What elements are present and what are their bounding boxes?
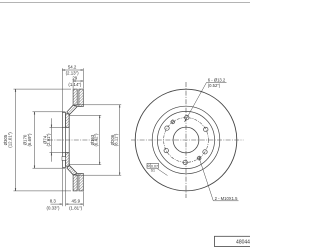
svg-text:48044: 48044	[236, 239, 250, 245]
svg-text:45.9: 45.9	[72, 199, 81, 204]
svg-text:(0.33″): (0.33″)	[46, 205, 60, 210]
svg-text:(8.11″): (8.11″)	[113, 133, 118, 146]
svg-text:(6.69″): (6.69″)	[27, 133, 32, 147]
svg-text:8.3: 8.3	[50, 199, 57, 204]
svg-text:2 - M10X1.5: 2 - M10X1.5	[215, 196, 238, 201]
svg-text:(2.91″): (2.91″)	[46, 133, 51, 147]
svg-text:(12.01″): (12.01″)	[8, 132, 13, 148]
svg-text:(6.42″): (6.42″)	[93, 133, 98, 147]
svg-text:54.2: 54.2	[68, 64, 77, 69]
svg-text:(0.52″): (0.52″)	[208, 83, 221, 88]
svg-text:(1.81″): (1.81″)	[69, 205, 83, 210]
svg-text:S1: S1	[151, 169, 155, 173]
svg-text:29: 29	[72, 75, 77, 80]
svg-text:6 - Ø13.2: 6 - Ø13.2	[208, 77, 226, 82]
svg-text:(1.14″): (1.14″)	[68, 82, 82, 87]
